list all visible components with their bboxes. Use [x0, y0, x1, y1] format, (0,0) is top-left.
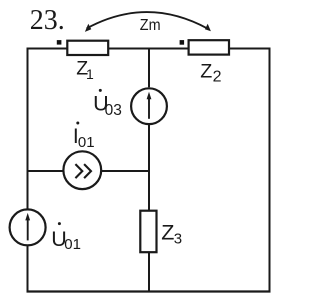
label Z2 — [200, 60, 221, 85]
svg-text:01: 01 — [64, 236, 81, 253]
svg-text:23.: 23. — [30, 5, 65, 36]
wire bottom — [27, 290, 271, 292]
polarity dot at Z2 — [180, 40, 185, 45]
voltage source U01 circle — [10, 209, 46, 245]
wire left vertical upper — [27, 48, 29, 209]
resistor Z2 — [189, 40, 229, 54]
wire left vertical lower — [27, 246, 29, 292]
resistor Z1 — [67, 41, 108, 55]
voltage source U03 circle — [131, 88, 167, 124]
wire top-middle segment — [108, 48, 190, 50]
wire middle lower (Z3 to bottom) — [148, 252, 150, 293]
wire I01 row left — [28, 170, 64, 172]
svg-text:03: 03 — [105, 102, 122, 119]
current source I01 circle — [63, 151, 101, 189]
label U03 with dot — [93, 89, 122, 119]
svg-text:Z: Z — [200, 60, 212, 82]
polarity dot at Z1 — [57, 40, 62, 45]
wire middle upper (top to U03) — [148, 49, 150, 88]
label Z3 — [161, 221, 182, 248]
arrowhead right of Zm arc — [205, 24, 211, 32]
wire middle mid (U03 to Z3) — [148, 125, 150, 211]
svg-text:Zm: Zm — [140, 17, 161, 34]
wire top-left segment — [27, 48, 68, 50]
arrowhead left of Zm arc — [85, 24, 91, 32]
svg-text:3: 3 — [174, 231, 182, 248]
svg-text:01: 01 — [78, 134, 95, 151]
wire top-right segment — [229, 48, 271, 50]
svg-text:1: 1 — [86, 66, 94, 82]
chevron 1 of I01 — [75, 164, 82, 178]
arrow inside U01 — [27, 219, 29, 241]
wire I01 row right — [102, 170, 150, 172]
arrow inside U03 — [148, 98, 150, 119]
impedance Z3 — [140, 211, 156, 253]
chevron 2 of I01 — [84, 164, 91, 178]
svg-text:Z: Z — [161, 221, 174, 245]
label U01 with dot — [51, 222, 81, 253]
label I01 with dot — [73, 122, 95, 152]
svg-text:2: 2 — [213, 68, 222, 85]
mutual coupling arc Zm — [87, 12, 209, 29]
label Z1 — [76, 58, 94, 82]
wire right vertical — [269, 48, 271, 293]
